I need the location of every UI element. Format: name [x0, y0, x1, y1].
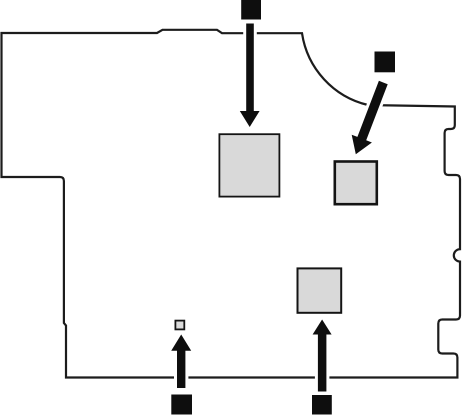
- arrow 4 (up, to small pad): [171, 335, 191, 389]
- chip pad lower center: [298, 268, 342, 312]
- chip pad mid right: [335, 162, 377, 205]
- callout box 1 (top): [241, 0, 261, 20]
- arrow 2 (diagonal, to mid chip): [352, 81, 388, 155]
- arrow 4 halo: [171, 335, 191, 389]
- arrow 3 (up, to lower chip): [313, 320, 332, 392]
- callout box 3 (bottom center): [312, 395, 332, 415]
- small pad (bottom left): [175, 321, 184, 330]
- arrow 2 halo: [352, 81, 388, 155]
- callout box 2 (upper right): [375, 52, 396, 73]
- arrow 1 (down, to large chip): [240, 24, 260, 128]
- arrow 1 halo (white casing over outline): [240, 24, 260, 128]
- arrow 3 halo: [313, 320, 332, 392]
- callout box 4 (bottom left): [171, 395, 192, 415]
- chip pad large (top center): [219, 134, 279, 196]
